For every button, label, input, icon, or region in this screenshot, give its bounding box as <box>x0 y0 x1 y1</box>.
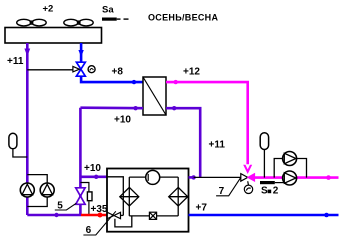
fan F2 (right) <box>64 19 93 26</box>
fan F1 (left) <box>17 19 46 26</box>
svg-text:+10: +10 <box>114 115 131 126</box>
wire: black link node to valve 7 <box>194 176 241 178</box>
wire: blue supply drop from cooler <box>80 43 83 63</box>
sensor Sa bulb bar <box>102 18 117 21</box>
svg-text:2: 2 <box>273 186 279 197</box>
svg-text:ОСЕНЬ/ВЕСНА: ОСЕНЬ/ВЕСНА <box>148 13 218 23</box>
flow arrow on purple riser <box>24 49 30 57</box>
svg-text:+8: +8 <box>112 67 124 78</box>
wire: purple return riser from cooler (left) <box>26 43 29 215</box>
wire: valve 6 outlet <box>121 214 124 216</box>
svg-text:Sa: Sa <box>102 4 114 15</box>
wire: magenta line +12 from exchanger to valve 7 <box>166 82 248 168</box>
node on magenta supply <box>326 175 331 180</box>
chiller inlet pipe <box>107 177 123 216</box>
three-way valve (top, blue) body <box>73 62 85 76</box>
condenser (right diamond) <box>169 187 188 206</box>
node on +12 line <box>174 80 178 84</box>
pump bypass loop (right) <box>274 159 282 178</box>
valve 5 bypass with filter <box>80 183 89 193</box>
refrigerant bottom line <box>128 206 130 216</box>
wire: purple drop to valve 5 <box>79 108 82 215</box>
svg-text:+7: +7 <box>196 203 208 214</box>
expansion valve (square with X) <box>149 212 156 219</box>
pump group loop (black) <box>27 175 47 184</box>
pump P3 (top) <box>283 152 297 166</box>
wire: black link to valve 4 <box>27 69 73 71</box>
wire: tank B2 stem <box>263 150 265 178</box>
expansion tank B1 (left) <box>9 133 17 149</box>
wire: purple +10 line to chiller <box>80 176 107 179</box>
wire: blue line valve to heat exchanger (+8) <box>81 76 143 82</box>
wire: purple exchanger bottom line (+10 upper) <box>80 106 143 109</box>
refrigerant top line <box>129 176 146 178</box>
node red <box>98 213 103 218</box>
node at chiller outlet <box>191 175 195 179</box>
three-way valve 7 (magenta) <box>241 174 255 182</box>
sensor S=2 bar <box>260 181 275 184</box>
dry cooler AT1 body <box>5 28 102 44</box>
node on +10 line <box>94 175 98 179</box>
flow arrow on blue drop <box>78 50 83 57</box>
pump P1 (left) <box>20 183 34 197</box>
wire: purple +11 line exchanger to chiller <box>166 108 200 177</box>
node on blue return <box>324 213 329 218</box>
compressor M1 <box>146 170 160 184</box>
wire: purple bottom header <box>27 214 81 217</box>
wire: tank B1 connection <box>13 149 27 157</box>
pump P4 (bottom, on line) <box>283 171 297 185</box>
heat exchanger T1 <box>143 77 166 115</box>
sensor Sa capillary dashes <box>117 18 121 20</box>
pump P2 (right) <box>40 183 54 197</box>
evaporator (left diamond) <box>120 187 139 206</box>
svg-text:+11: +11 <box>7 56 24 67</box>
svg-text:+12: +12 <box>183 67 200 78</box>
svg-text:S: S <box>261 186 268 197</box>
valve actuator (top valve) <box>88 66 95 73</box>
node right of exchanger bottom <box>172 106 176 110</box>
valve 5 (purple, vertical bowtie) <box>76 188 85 205</box>
node on bottom header <box>54 213 58 217</box>
svg-text:+11: +11 <box>209 140 226 151</box>
node left of exchanger bottom <box>133 106 137 110</box>
wire: magenta supply to consumers <box>255 176 339 179</box>
valve 6 bypass loop <box>115 216 132 227</box>
expansion tank B2 (right) <box>260 133 268 150</box>
wire: purple stub chiller to node <box>189 176 196 179</box>
wire: blue return main <box>189 214 339 217</box>
svg-text:+10: +10 <box>84 163 101 174</box>
chiller unit box <box>107 169 189 232</box>
valve 7 actuator <box>244 181 252 193</box>
svg-text:+35: +35 <box>91 204 108 215</box>
valve 6 (black bowtie) <box>107 212 120 218</box>
node on +8 line <box>132 80 136 84</box>
svg-text:+2: +2 <box>43 4 54 15</box>
wire: red +35 segment <box>81 214 107 217</box>
flow arrow into valve 7 <box>243 165 252 174</box>
